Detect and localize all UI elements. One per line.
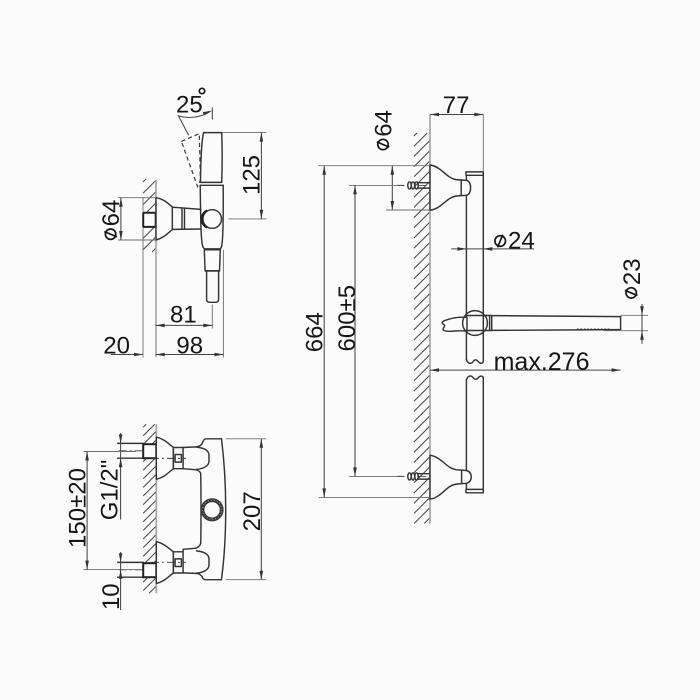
top inlet centreline bbox=[119, 450, 157, 452]
svg-text:max.276: max.276 bbox=[494, 348, 590, 376]
dim 81 bbox=[156, 324, 213, 326]
svg-text:24: 24 bbox=[508, 228, 535, 255]
top wall bracket bell bbox=[430, 165, 471, 210]
dim 20 (outside arrow) bbox=[111, 354, 143, 356]
top trumpet escutcheon bbox=[156, 437, 173, 479]
knob front edge arc bbox=[202, 211, 208, 228]
handle (solid, vertical position) bbox=[200, 133, 223, 186]
dim phi24 bbox=[451, 248, 534, 250]
wall hatching (bottom-left view) bbox=[143, 424, 156, 593]
dim 98 bbox=[156, 354, 224, 356]
dim 125 bbox=[222, 132, 266, 134]
svg-text:98: 98 bbox=[176, 333, 203, 360]
svg-text:23: 23 bbox=[619, 258, 646, 285]
bottom check-valve fitting bbox=[173, 552, 183, 573]
dim phi64 right view bbox=[391, 166, 393, 210]
bottom wall bracket bell bbox=[430, 455, 471, 499]
cartridge housing below body bbox=[204, 250, 220, 271]
bottom anchor screw centreline bbox=[397, 475, 409, 477]
top bracket collar line bbox=[460, 180, 462, 196]
dashed handle tilted 25deg bbox=[181, 134, 200, 187]
dim 207 bbox=[226, 438, 267, 440]
escutcheon trumpet bbox=[156, 198, 172, 240]
bottom inlet pipe bbox=[118, 562, 144, 577]
svg-text:664: 664 bbox=[301, 312, 328, 352]
top trumpet centreline bbox=[151, 457, 186, 459]
svg-text:20: 20 bbox=[103, 333, 130, 360]
svg-text:81: 81 bbox=[170, 301, 197, 328]
top inlet nut bbox=[143, 444, 156, 458]
wall back extension line bbox=[142, 197, 144, 358]
dim max.276 bbox=[430, 369, 621, 371]
rail break squiggles bbox=[466, 360, 483, 364]
25deg angle arc with arrow bbox=[179, 111, 211, 117]
shaft knurl band bbox=[577, 328, 611, 330]
dim 150+-20 bbox=[84, 451, 137, 453]
dim phi64 left bbox=[118, 197, 156, 199]
top inlet pipe bbox=[118, 443, 144, 458]
hand shower release lever bbox=[442, 317, 467, 331]
rail bottom cap plate bbox=[466, 489, 483, 492]
dim phi23 bbox=[621, 314, 648, 316]
concealed inlet nut bbox=[143, 213, 156, 227]
wall face line bbox=[155, 180, 157, 357]
svg-text:10: 10 bbox=[98, 583, 125, 610]
wall hatching (right view) bbox=[414, 133, 430, 524]
wall face line bbox=[429, 115, 431, 524]
bottom inlet nut bbox=[143, 563, 156, 577]
bottom trumpet centreline bbox=[151, 561, 186, 563]
hand shower shaft bbox=[492, 316, 621, 331]
svg-text:G1/2": G1/2" bbox=[97, 460, 124, 521]
bottom trumpet escutcheon bbox=[156, 542, 173, 584]
outlet tube bbox=[207, 271, 219, 302]
rail top cap plate bbox=[466, 172, 483, 175]
bottom anchor screw bbox=[408, 473, 430, 480]
svg-text:64: 64 bbox=[98, 200, 125, 227]
dim 664 bbox=[319, 165, 431, 167]
dim G1/2 bbox=[120, 433, 122, 520]
svg-text:600±5: 600±5 bbox=[334, 285, 361, 352]
svg-text:150±20: 150±20 bbox=[65, 468, 92, 548]
rail tube bbox=[466, 175, 483, 489]
handle knob circle bbox=[203, 210, 222, 229]
svg-text:77: 77 bbox=[443, 92, 470, 119]
25deg vertical reference tick bbox=[211, 107, 213, 119]
25deg leader line bbox=[178, 115, 189, 135]
connector pipe bbox=[172, 207, 201, 229]
svg-text:25: 25 bbox=[176, 91, 203, 118]
svg-text:207: 207 bbox=[239, 491, 266, 531]
svg-text:64: 64 bbox=[371, 110, 398, 137]
mixer body outline bbox=[183, 439, 226, 580]
bottom bracket collar line bbox=[461, 470, 463, 484]
bottom inlet centreline bbox=[119, 569, 157, 571]
body right extension line bbox=[222, 250, 224, 358]
top anchor screw centreline bbox=[397, 184, 409, 186]
tube centre extension line bbox=[211, 305, 213, 329]
holder knob circle bbox=[463, 311, 488, 336]
svg-text:125: 125 bbox=[238, 155, 265, 195]
wall hatching (top-left view) bbox=[143, 179, 156, 252]
wall face line bbox=[155, 424, 157, 593]
dim 77 bbox=[430, 114, 483, 116]
dim 600+-5 bbox=[349, 184, 398, 186]
valve body bbox=[200, 185, 223, 249]
77 right extension bbox=[482, 115, 484, 172]
hand shower handle butt bbox=[466, 316, 491, 331]
top anchor screw bbox=[408, 182, 430, 189]
top check-valve fitting bbox=[173, 448, 183, 469]
temperature ring bbox=[201, 499, 223, 521]
dim 10 bbox=[120, 552, 122, 610]
